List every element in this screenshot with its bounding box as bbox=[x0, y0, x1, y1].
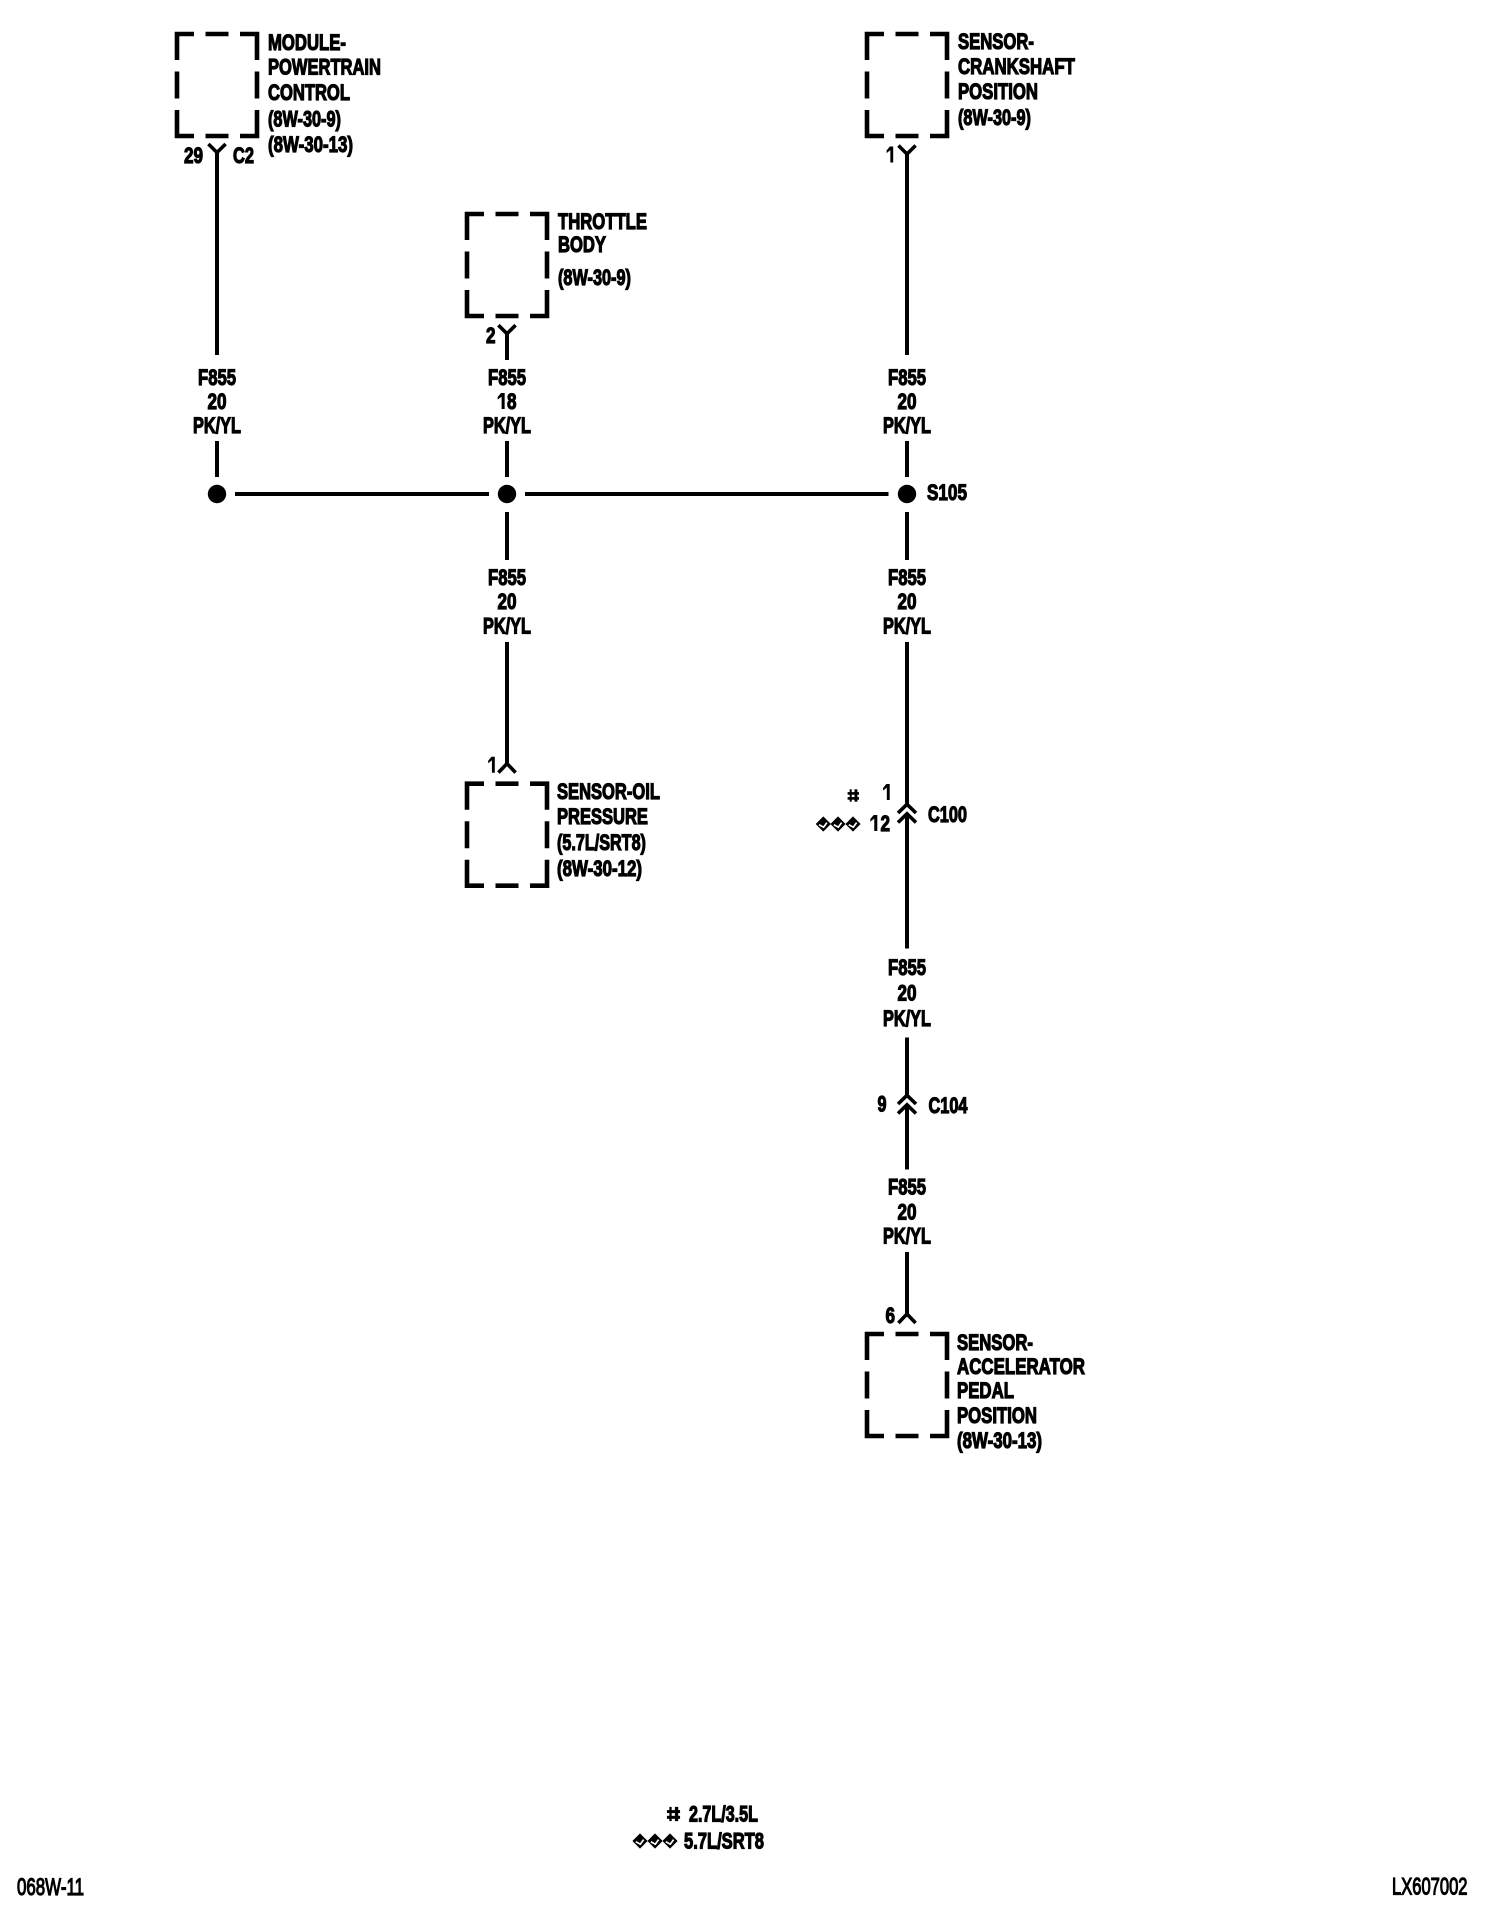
svg-text:PK/YL: PK/YL bbox=[883, 414, 931, 439]
svg-text:C104: C104 bbox=[929, 1094, 968, 1119]
svg-text:PK/YL: PK/YL bbox=[883, 1224, 931, 1249]
svg-text:20: 20 bbox=[497, 590, 516, 615]
svg-text:068W-11: 068W-11 bbox=[17, 1874, 84, 1901]
svg-text:9: 9 bbox=[878, 1093, 887, 1117]
svg-text:THROTTLE: THROTTLE bbox=[558, 210, 647, 235]
svg-text:F855: F855 bbox=[888, 956, 926, 981]
svg-text:20: 20 bbox=[897, 390, 916, 415]
svg-text:S105: S105 bbox=[927, 481, 967, 506]
svg-text:SENSOR-: SENSOR- bbox=[958, 30, 1034, 55]
svg-text:BODY: BODY bbox=[558, 233, 606, 258]
svg-text:29: 29 bbox=[184, 144, 203, 169]
svg-text:F855: F855 bbox=[888, 1176, 926, 1201]
svg-text:(8W-30-13): (8W-30-13) bbox=[268, 133, 353, 158]
svg-text:MODULE-: MODULE- bbox=[268, 31, 346, 56]
svg-text:C100: C100 bbox=[928, 803, 967, 828]
svg-text:(8W-30-9): (8W-30-9) bbox=[558, 266, 631, 291]
svg-text:F855: F855 bbox=[888, 566, 926, 591]
svg-text:(8W-30-9): (8W-30-9) bbox=[958, 106, 1031, 131]
svg-text:PEDAL: PEDAL bbox=[957, 1379, 1014, 1404]
svg-text:2.7L/3.5L: 2.7L/3.5L bbox=[689, 1803, 758, 1827]
svg-text:PK/YL: PK/YL bbox=[483, 614, 531, 639]
svg-text:PK/YL: PK/YL bbox=[883, 1007, 931, 1032]
svg-text:20: 20 bbox=[897, 590, 916, 615]
svg-text:SENSOR-: SENSOR- bbox=[957, 1331, 1033, 1356]
svg-text:5.7L/SRT8: 5.7L/SRT8 bbox=[684, 1829, 764, 1854]
svg-text:ACCELERATOR: ACCELERATOR bbox=[957, 1355, 1085, 1380]
svg-text:PK/YL: PK/YL bbox=[883, 614, 931, 639]
svg-text:8: 8 bbox=[507, 390, 517, 415]
svg-text:2: 2 bbox=[486, 324, 496, 349]
svg-text:POSITION: POSITION bbox=[957, 1404, 1037, 1429]
svg-text:SENSOR-OIL: SENSOR-OIL bbox=[557, 780, 660, 805]
svg-text:LX607002: LX607002 bbox=[1392, 1874, 1467, 1901]
svg-text:6: 6 bbox=[886, 1304, 896, 1329]
svg-text:20: 20 bbox=[897, 1201, 916, 1226]
svg-text:20: 20 bbox=[897, 982, 916, 1007]
svg-text:20: 20 bbox=[207, 390, 226, 415]
svg-text:F855: F855 bbox=[488, 566, 526, 591]
svg-text:PK/YL: PK/YL bbox=[483, 414, 531, 439]
svg-text:(8W-30-9): (8W-30-9) bbox=[268, 107, 341, 132]
svg-text:(5.7L/SRT8): (5.7L/SRT8) bbox=[557, 832, 646, 856]
svg-text:PRESSURE: PRESSURE bbox=[557, 805, 648, 830]
svg-text:F855: F855 bbox=[488, 366, 526, 391]
svg-text:CRANKSHAFT: CRANKSHAFT bbox=[958, 55, 1075, 80]
svg-text:F855: F855 bbox=[888, 366, 926, 391]
svg-text:(8W-30-12): (8W-30-12) bbox=[557, 857, 642, 882]
svg-text:POSITION: POSITION bbox=[958, 80, 1038, 105]
svg-text:(8W-30-13): (8W-30-13) bbox=[957, 1429, 1042, 1454]
svg-text:F855: F855 bbox=[198, 366, 236, 391]
svg-text:PK/YL: PK/YL bbox=[193, 414, 241, 439]
svg-text:C2: C2 bbox=[233, 144, 254, 169]
svg-text:2: 2 bbox=[881, 812, 891, 837]
svg-text:CONTROL: CONTROL bbox=[268, 81, 350, 106]
svg-text:POWERTRAIN: POWERTRAIN bbox=[268, 55, 381, 80]
